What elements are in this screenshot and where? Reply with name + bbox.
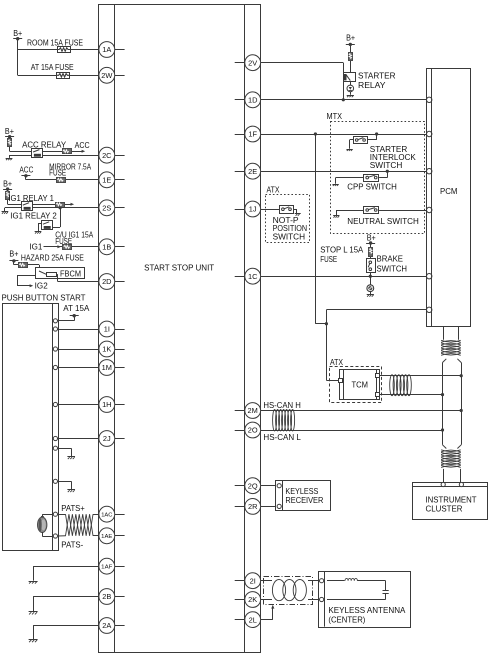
- arrow (ig1 feed): [57, 245, 61, 248]
- PCM pin 1F: [427, 131, 432, 136]
- antenna pin 1: [320, 579, 324, 583]
- label PATS+: [61, 504, 85, 513]
- connector 2K: [245, 592, 261, 608]
- label FUSE (stop l): [320, 255, 337, 264]
- arrow onto antenna: [41, 516, 44, 520]
- push button start box: [3, 303, 59, 550]
- left connector inner stubs: [115, 50, 125, 626]
- svg-text:STARTER: STARTER: [358, 71, 396, 80]
- label MIRROR 7.5A: [49, 162, 92, 171]
- label KEYLESS ANTENNA: [328, 606, 406, 615]
- wire brake b+ down: [370, 243, 372, 259]
- right connector inner stubs: [235, 63, 245, 620]
- ground (cpp): [332, 184, 338, 186]
- svg-text:1B: 1B: [102, 243, 111, 252]
- connector 1H: [99, 397, 115, 413]
- connector 2C: [99, 147, 115, 163]
- svg-text:HAZARD 25A FUSE: HAZARD 25A FUSE: [21, 254, 84, 263]
- svg-text:2A: 2A: [102, 621, 111, 630]
- label MTX: [327, 112, 343, 121]
- junction CAN L: [441, 428, 444, 431]
- svg-text:2E: 2E: [248, 167, 257, 176]
- svg-text:KEYLESS: KEYLESS: [285, 487, 318, 496]
- wire 2R to receiver: [261, 506, 278, 508]
- wire 1J to switch: [261, 209, 280, 211]
- wire relay to diode: [350, 82, 352, 86]
- arrow ig1 out: [71, 203, 75, 206]
- TCM pin left: [339, 379, 343, 383]
- keyless antenna box: [319, 571, 411, 627]
- wire inductor to cap: [357, 581, 385, 591]
- cluster can stubs: [444, 469, 461, 482]
- fuse small (c/u ig1): [63, 245, 72, 250]
- label PATS-: [61, 541, 83, 550]
- CPP switch: [364, 175, 379, 182]
- wire 2B to ground: [33, 597, 99, 612]
- instrument cluster box: [412, 483, 487, 520]
- label STARTER (relay): [358, 71, 396, 80]
- wire neutral switch: [336, 210, 426, 215]
- wire PATS- to antenna: [42, 532, 53, 537]
- svg-text:2Q: 2Q: [248, 481, 258, 490]
- connector 2V: [245, 55, 261, 71]
- wire B+ starter down: [350, 44, 352, 72]
- TCM pin right bottom: [376, 393, 380, 397]
- wire AT15A to pin: [58, 316, 75, 321]
- svg-text:2W: 2W: [101, 71, 112, 80]
- svg-text:AT 15A FUSE: AT 15A FUSE: [31, 63, 74, 72]
- svg-text:ACC: ACC: [75, 141, 90, 150]
- connector 2A: [99, 618, 115, 634]
- wire interlock tap: [368, 134, 377, 140]
- wire 2I to pair: [260, 580, 272, 582]
- antenna pin 2: [320, 597, 324, 601]
- NOT-P position switch: [280, 206, 294, 214]
- label KEYLESS: [285, 487, 318, 496]
- svg-text:2I: 2I: [250, 576, 256, 585]
- svg-text:RECEIVER: RECEIVER: [285, 496, 323, 505]
- svg-text:2K: 2K: [248, 595, 257, 604]
- connector 2B: [99, 589, 115, 605]
- wire lamp to ground: [370, 292, 372, 295]
- connector 1J: [245, 201, 261, 217]
- PATS twisted pair: [66, 514, 94, 536]
- B+ terminal (acc relay): [5, 127, 14, 138]
- ground (ig1 relay1): [2, 212, 9, 214]
- TCM twisted pair: [390, 375, 412, 396]
- label HS-CAN H: [263, 401, 301, 410]
- wire relay2 to ground: [38, 223, 42, 231]
- label FBCM: [60, 270, 81, 279]
- fuse ROOM 15A: [58, 47, 71, 53]
- label ATX (tcm): [330, 358, 344, 367]
- label INTERLOCK: [370, 153, 417, 162]
- svg-text:SWITCH: SWITCH: [370, 161, 403, 170]
- start stop unit box: [99, 5, 261, 653]
- wire 1F drop long: [315, 134, 326, 324]
- connector 1K: [99, 341, 115, 357]
- FBCM box: [36, 268, 85, 279]
- label NEUTRAL SWITCH: [347, 217, 419, 226]
- brake switch contacts: [368, 261, 371, 271]
- svg-text:MTX: MTX: [327, 112, 343, 121]
- svg-text:(CENTER): (CENTER): [328, 616, 365, 625]
- svg-text:HS-CAN H: HS-CAN H: [263, 401, 301, 410]
- svg-text:STOP L 15A: STOP L 15A: [320, 245, 364, 254]
- wire pbs ground 2: [58, 481, 72, 489]
- svg-text:2M: 2M: [248, 406, 258, 415]
- label PUSH BUTTON START: [2, 294, 86, 303]
- TCM pin right top: [376, 374, 380, 378]
- fuse vertical (stop l): [369, 248, 373, 257]
- svg-text:2S: 2S: [102, 204, 111, 213]
- receiver pin 1: [277, 484, 281, 488]
- svg-text:1AC: 1AC: [101, 512, 112, 518]
- label FUSE (mirror): [49, 169, 66, 178]
- wire 1F to PCM: [261, 134, 427, 136]
- fuse AT 15A: [57, 73, 70, 79]
- wire cpp to ground: [336, 178, 364, 184]
- svg-text:1A: 1A: [102, 45, 111, 54]
- ground (2B): [29, 612, 38, 615]
- wire pbs to 1I: [58, 329, 99, 331]
- wire relay1 out: [33, 204, 71, 206]
- wire B+ ig1 down: [7, 189, 9, 204]
- AT 15A terminal: [70, 314, 79, 317]
- junction (brake/1C): [369, 275, 372, 278]
- svg-text:PATS+: PATS+: [61, 504, 85, 513]
- svg-text:1F: 1F: [248, 130, 257, 139]
- fuse vertical (starter): [349, 53, 353, 61]
- wire HS-CAN H: [261, 410, 462, 412]
- wire antenna coil feed: [327, 580, 345, 582]
- label BRAKE: [377, 255, 404, 264]
- label HAZARD 25A FUSE: [21, 254, 84, 263]
- svg-text:TCM: TCM: [352, 380, 369, 389]
- junction (1F long drop): [314, 132, 317, 135]
- wire fbcm to 2D: [56, 274, 99, 281]
- svg-text:2D: 2D: [102, 277, 111, 286]
- wire pbs to 1M: [58, 367, 99, 369]
- svg-text:B+: B+: [367, 234, 376, 243]
- PCM box: [427, 68, 471, 327]
- ATX dashed box (tcm): [330, 367, 382, 403]
- MTX dashed box: [331, 122, 425, 234]
- svg-text:PUSH BUTTON START: PUSH BUTTON START: [2, 294, 86, 303]
- label AT 15A: [63, 304, 90, 313]
- label ROOM 15A FUSE: [27, 39, 83, 48]
- svg-text:1D: 1D: [248, 96, 257, 105]
- starter relay coil: [344, 74, 347, 80]
- wire B+ down: [17, 39, 19, 76]
- wire to 2W: [18, 75, 99, 77]
- wire pair to antenna L: [308, 599, 319, 601]
- stop lamp: [367, 285, 374, 292]
- PATS antenna coil: [38, 517, 47, 532]
- wire interlock to ground: [350, 140, 354, 149]
- svg-text:1AE: 1AE: [101, 534, 112, 540]
- svg-text:NEUTRAL SWITCH: NEUTRAL SWITCH: [347, 217, 419, 226]
- junction CAN H: [460, 409, 463, 412]
- connector 1AC: [99, 506, 115, 522]
- TCM box: [340, 369, 380, 400]
- connector 1AE: [99, 528, 115, 544]
- svg-text:1E: 1E: [102, 176, 111, 185]
- ground (not-p): [295, 214, 301, 216]
- shield dash-dot box: [264, 577, 313, 605]
- fuse vertical (acc relay): [8, 139, 12, 147]
- diode (starter relay): [347, 85, 354, 92]
- PCM can stubs: [444, 326, 459, 340]
- svg-text:B+: B+: [9, 249, 18, 258]
- wire hazard: [14, 261, 40, 271]
- junction (tcm/pcm split): [325, 322, 328, 325]
- wire ACC down-right to 1E: [26, 176, 99, 180]
- junction (cpp tap): [386, 170, 389, 173]
- ground (stop lamp): [367, 295, 374, 297]
- svg-text:CLUSTER: CLUSTER: [426, 505, 463, 514]
- push button start pins: [53, 319, 57, 538]
- wire fbcm to IG2: [17, 275, 36, 285]
- junction TCM L: [441, 393, 444, 396]
- coil (pcm-cable): [441, 340, 461, 355]
- PCM pin 1D: [427, 97, 432, 102]
- connector 1E: [99, 172, 115, 188]
- wire 1D to PCM: [261, 99, 427, 101]
- ground (2A): [29, 640, 38, 643]
- wire starter relay left drop: [343, 63, 345, 100]
- svg-text:ACC: ACC: [19, 166, 33, 175]
- svg-text:1I: 1I: [104, 325, 110, 334]
- wire HS-CAN L: [261, 430, 443, 432]
- junction (starter/1D): [342, 98, 345, 101]
- label IG2: [35, 282, 48, 291]
- fuse small (hazard): [19, 263, 28, 268]
- svg-text:1H: 1H: [102, 400, 111, 409]
- svg-text:INSTRUMENT: INSTRUMENT: [426, 496, 477, 505]
- wire cap to pin2: [327, 593, 386, 599]
- svg-text:2R: 2R: [248, 502, 257, 511]
- B+ terminal (hazard): [9, 249, 18, 262]
- starter interlock switch: [354, 137, 368, 144]
- starter relay switch: [346, 74, 351, 80]
- CAN cable box: [443, 359, 462, 449]
- label IG1 RELAY 1: [8, 194, 54, 203]
- junction (ig1 relay2 tap): [59, 206, 62, 209]
- cluster pin 1: [441, 482, 445, 486]
- label NOT-P: [273, 216, 299, 225]
- PCM pin 2E: [427, 169, 432, 174]
- svg-text:ATX: ATX: [267, 186, 281, 195]
- ig1 relay 2: [42, 221, 53, 230]
- label SWITCH (not-p): [273, 233, 306, 242]
- fuse vertical (ig1): [6, 192, 10, 200]
- svg-text:1K: 1K: [102, 345, 111, 354]
- svg-text:1M: 1M: [102, 363, 112, 372]
- neutral switch: [364, 207, 379, 214]
- svg-text:2V: 2V: [248, 58, 257, 67]
- wire pair to antenna H: [308, 580, 319, 582]
- svg-text:2B: 2B: [102, 592, 111, 601]
- connector 2O: [245, 422, 261, 438]
- svg-text:ROOM 15A FUSE: ROOM 15A FUSE: [27, 39, 83, 48]
- label C/U IG1 15A: [55, 231, 94, 240]
- cluster pin 2: [459, 482, 463, 486]
- antenna capacitor: [383, 591, 389, 594]
- svg-text:SWITCH: SWITCH: [377, 265, 408, 274]
- connector 2J: [99, 431, 115, 447]
- wire 2Q to receiver: [261, 485, 278, 487]
- junction (interlock tap): [375, 132, 378, 135]
- svg-text:HS-CAN L: HS-CAN L: [263, 433, 301, 442]
- svg-text:FBCM: FBCM: [60, 270, 81, 279]
- antenna twisted pair: [272, 580, 306, 601]
- svg-text:FUSE: FUSE: [49, 169, 66, 178]
- antenna inductor: [345, 578, 357, 580]
- wire pbs ground 1: [58, 448, 72, 456]
- ground (acc relay): [6, 159, 13, 161]
- wire not-p to ground: [293, 209, 296, 213]
- connector 1AF: [99, 558, 115, 574]
- svg-text:IG1 RELAY 2: IG1 RELAY 2: [10, 212, 57, 221]
- brake switch box: [367, 259, 376, 273]
- label IG1: [29, 243, 42, 252]
- PCM pin 1C: [427, 274, 432, 279]
- label FUSE (c/u): [55, 237, 72, 246]
- label ACC (out): [75, 141, 90, 150]
- wire into acc relay: [10, 151, 32, 153]
- B+ terminal (brake): [366, 234, 376, 245]
- svg-text:2C: 2C: [102, 151, 112, 160]
- wire cpp tap: [379, 171, 387, 177]
- FBCM switch: [39, 271, 47, 274]
- svg-text:BRAKE: BRAKE: [377, 255, 404, 264]
- acc relay: [32, 149, 43, 158]
- starter relay box: [344, 73, 356, 82]
- wire to TCM: [326, 324, 338, 381]
- coil (cable-cluster): [441, 450, 461, 468]
- connector 1C: [245, 268, 261, 284]
- ground (1AF): [29, 581, 38, 583]
- wire TCM H: [379, 375, 461, 377]
- label ATX (not-p): [267, 186, 281, 195]
- svg-text:CPP SWITCH: CPP SWITCH: [347, 182, 397, 191]
- B+ terminal (room/at fuses): [13, 29, 22, 40]
- label HS-CAN L: [263, 433, 301, 442]
- wire acc relay to 2C: [43, 155, 99, 157]
- label SWITCH (interlock): [370, 161, 403, 170]
- B+ terminal (ig1): [3, 180, 12, 191]
- svg-text:IG2: IG2: [35, 282, 48, 291]
- label ACC RELAY: [22, 141, 67, 150]
- ground (interlock): [346, 149, 352, 151]
- label CPP SWITCH: [347, 182, 397, 191]
- svg-text:B+: B+: [346, 34, 355, 43]
- wire 1C to PCM: [261, 276, 427, 278]
- wire into ig1 relay1: [8, 204, 22, 206]
- svg-text:FUSE: FUSE: [320, 255, 337, 264]
- svg-text:1J: 1J: [249, 205, 257, 214]
- connector 2L: [245, 612, 261, 628]
- start stop unit label: [144, 263, 214, 272]
- wire PATS+ to zigzag: [58, 514, 66, 516]
- FBCM coil: [47, 273, 57, 277]
- svg-text:B+: B+: [3, 180, 12, 189]
- wire acc relay coil to ground: [9, 155, 32, 158]
- wire relay1 coil to ground: [5, 208, 22, 212]
- connector 2E: [245, 163, 261, 179]
- HS-CAN twisted pair: [273, 409, 295, 431]
- wire relay1 to 2S: [33, 207, 99, 209]
- PCM pin neutral: [427, 207, 432, 212]
- svg-text:ATX: ATX: [330, 358, 344, 367]
- ground (ig1 relay2): [35, 232, 42, 234]
- wire 2K to pair: [260, 599, 272, 601]
- svg-text:START STOP UNIT: START STOP UNIT: [144, 263, 214, 272]
- arrow shield ground: [271, 605, 274, 609]
- connector 2D: [99, 274, 115, 290]
- wire 1AF to ground: [33, 566, 99, 580]
- svg-text:2O: 2O: [248, 426, 258, 435]
- connector 1F: [245, 126, 261, 142]
- wire 2A to ground: [33, 626, 99, 640]
- connector 2S: [99, 200, 115, 216]
- svg-text:1C: 1C: [248, 272, 258, 281]
- wire IG1 to 1B: [44, 246, 99, 248]
- connector 2W: [99, 67, 115, 83]
- wire PATS- to zigzag: [58, 535, 66, 537]
- fuse small (ig1 out): [56, 203, 65, 208]
- wire acc relay out: [43, 151, 83, 153]
- svg-text:2L: 2L: [249, 615, 257, 624]
- svg-text:AT 15A: AT 15A: [63, 304, 90, 313]
- wire tap down to relay2: [53, 208, 61, 228]
- wire pbs to 2J: [58, 438, 99, 440]
- receiver pin 2: [277, 504, 281, 508]
- ground (pbs 1): [67, 457, 75, 460]
- svg-text:IG1: IG1: [29, 243, 42, 252]
- svg-text:PATS-: PATS-: [61, 541, 83, 550]
- ACC terminal: [19, 166, 33, 178]
- ground (starter relay): [347, 95, 354, 97]
- label IG1 RELAY 2: [10, 212, 57, 221]
- svg-text:ACC RELAY: ACC RELAY: [22, 141, 67, 150]
- svg-text:SWITCH: SWITCH: [273, 233, 306, 242]
- keyless receiver box: [276, 480, 331, 511]
- PCM pin B+: [427, 307, 432, 312]
- wire brake to 1C wire: [370, 273, 372, 276]
- wire zigzag to 1AC: [93, 514, 99, 516]
- label SWITCH (brake): [377, 265, 408, 274]
- connector 2I: [245, 573, 261, 589]
- ig1 relay 1: [22, 202, 33, 211]
- wire 2E to PCM: [261, 171, 427, 173]
- connector 1D: [245, 92, 261, 108]
- svg-text:KEYLESS ANTENNA: KEYLESS ANTENNA: [328, 606, 406, 615]
- connector 1M: [99, 360, 115, 376]
- arrow IG2: [30, 284, 34, 287]
- connector 2Q: [245, 478, 261, 494]
- label POSITION: [273, 224, 308, 233]
- svg-text:B+: B+: [13, 29, 22, 38]
- ground (neutral): [333, 216, 339, 218]
- connector 2M: [245, 403, 261, 419]
- label STARTER (interlock): [370, 145, 408, 154]
- wire zigzag to 1AE: [93, 535, 99, 537]
- wire to PCM pin6: [326, 310, 426, 324]
- wire pbs to 1K: [58, 349, 99, 351]
- connector 1A: [99, 42, 115, 58]
